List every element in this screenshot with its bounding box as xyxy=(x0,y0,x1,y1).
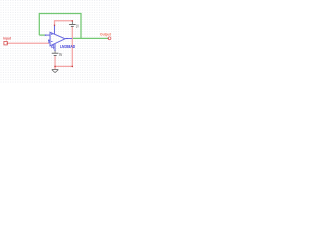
svg-text:Input: Input xyxy=(3,35,11,40)
svg-text:Output: Output xyxy=(100,32,111,37)
svg-text:1V: 1V xyxy=(76,23,79,28)
svg-text:5V: 5V xyxy=(59,52,62,57)
svg-text:LM358AD: LM358AD xyxy=(60,44,75,49)
